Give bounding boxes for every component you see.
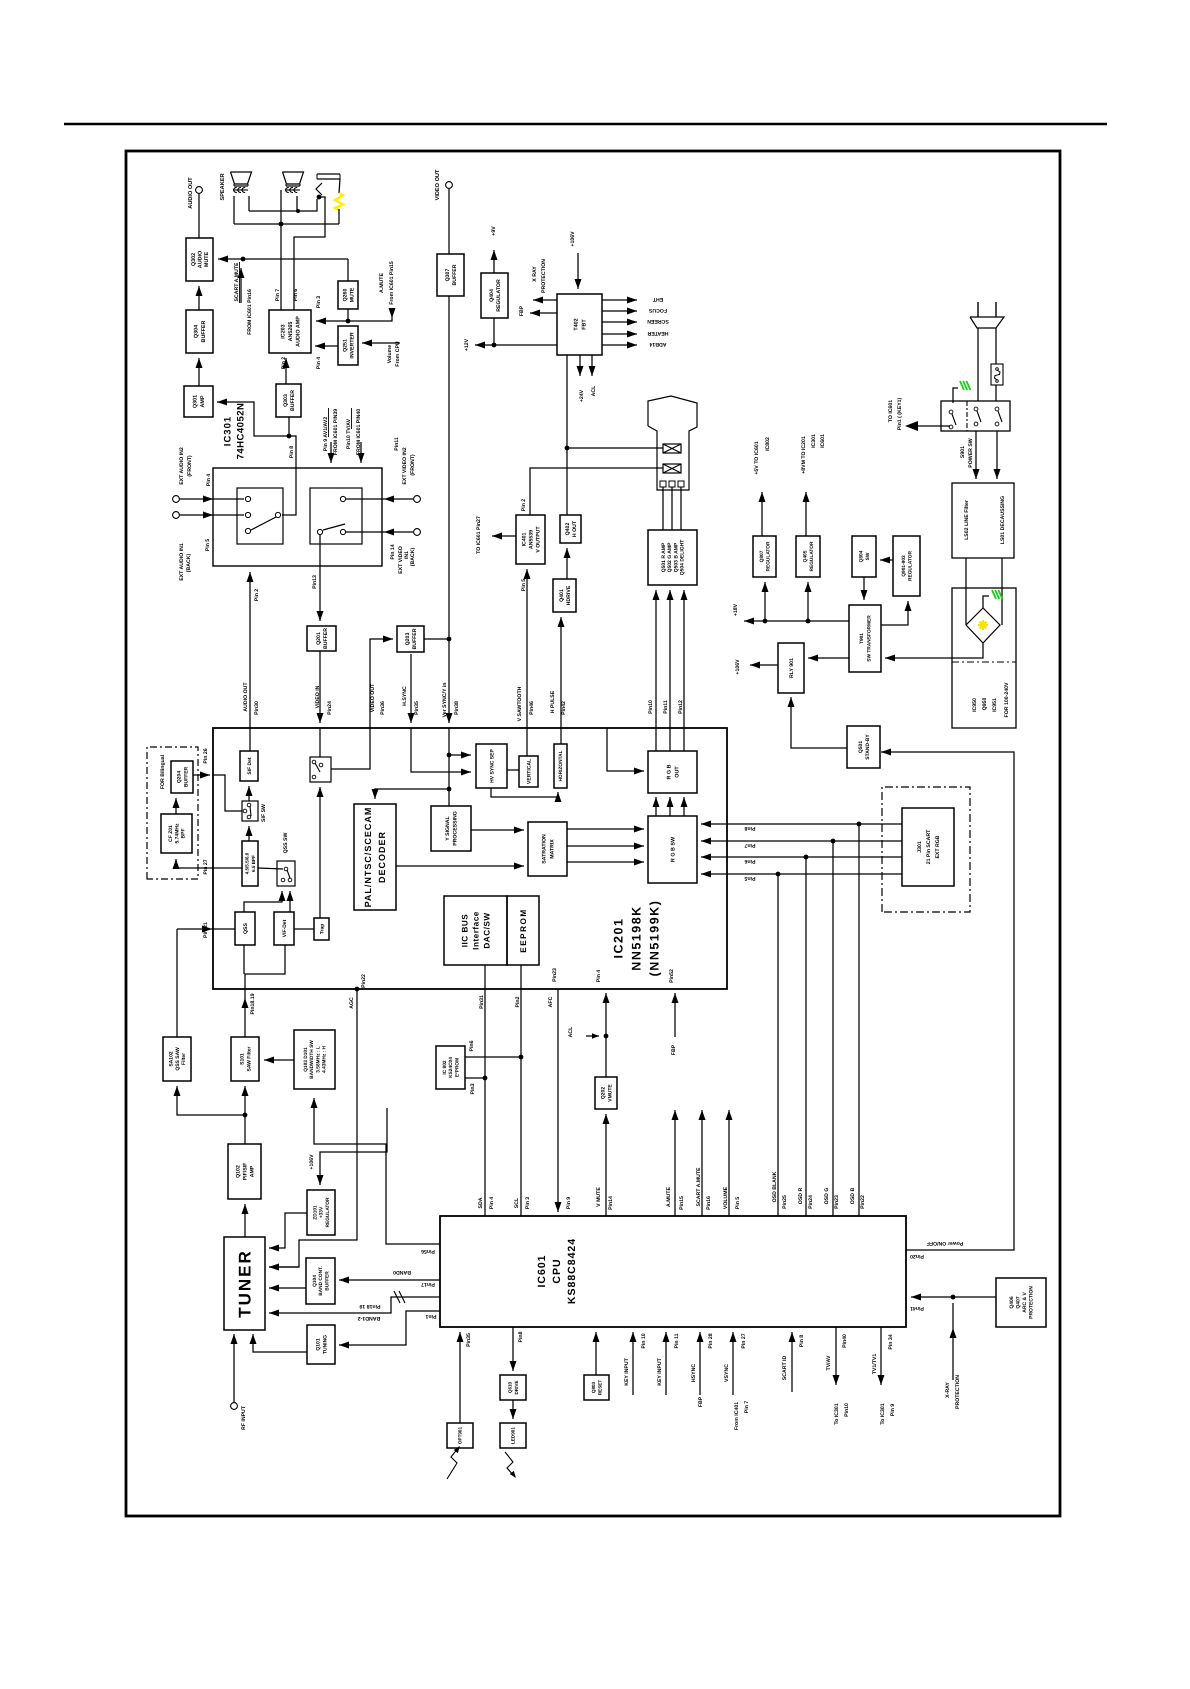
label OSD G bbox=[824, 1188, 830, 1205]
wire Q260 to IC203 Pin3 bbox=[316, 309, 350, 325]
wire Q301 to Q304 bbox=[196, 358, 203, 386]
wire FBT X-RAY bbox=[533, 297, 557, 304]
svg-text:RLY 901: RLY 901 bbox=[789, 658, 795, 678]
regulator Q901-903 REGULATOR bbox=[893, 536, 920, 596]
wire Q404 to +12V rail bbox=[493, 318, 495, 345]
wire FBT out HEATER bbox=[602, 331, 637, 338]
underline SCART A.MUTE bbox=[239, 262, 241, 303]
wire RGB out drive 684 bbox=[681, 590, 688, 751]
svg-text:EXT AUDIO IN1: EXT AUDIO IN1 bbox=[179, 543, 185, 581]
wire SDA bbox=[483, 965, 488, 1216]
label Pin6 bbox=[744, 858, 755, 864]
wire blank to RGBOUT bbox=[607, 728, 644, 775]
wire hsync internal bbox=[411, 728, 471, 776]
block VIF-Det bbox=[274, 912, 294, 945]
block SIF Det bbox=[240, 751, 258, 781]
label IC201 bbox=[612, 918, 626, 959]
label +106V rly bbox=[735, 659, 741, 675]
svg-text:IC401: IC401 bbox=[521, 532, 527, 546]
wire OSD BLANK bbox=[777, 874, 779, 1216]
svg-text:Pin25: Pin25 bbox=[782, 1195, 788, 1209]
wire OPT901 to IC601 bbox=[457, 1332, 464, 1423]
wire FBT FBP bbox=[530, 310, 557, 317]
wire Pin27 line bbox=[176, 867, 242, 869]
label Power ON/OFF bbox=[927, 1240, 964, 1246]
label Pin 14 bbox=[390, 544, 396, 559]
svg-text:BUFFER: BUFFER bbox=[412, 628, 418, 649]
svg-text:SCREEN: SCREEN bbox=[647, 318, 669, 324]
svg-text:4.5/5.5/6.0: 4.5/5.5/6.0 bbox=[245, 852, 250, 874]
label Pin13 bbox=[312, 575, 318, 589]
svg-text:From CPU: From CPU bbox=[395, 341, 401, 367]
arrowhead pin21 bbox=[202, 926, 212, 933]
label V MUTE bbox=[596, 1187, 602, 1207]
svg-text:Pin14: Pin14 bbox=[608, 1196, 614, 1210]
label SPEAKER bbox=[220, 173, 226, 200]
svg-text:+33V: +33V bbox=[319, 1206, 325, 1218]
transformer T901 SW TRANSFORMER bbox=[849, 605, 881, 672]
svg-text:Power ON/OFF: Power ON/OFF bbox=[927, 1240, 964, 1246]
label Pin 7 ic401 bbox=[744, 1401, 750, 1414]
LED output squiggle bbox=[505, 1452, 516, 1478]
label Pin 27 vsync bbox=[741, 1333, 747, 1348]
svg-text:V OUTPUT: V OUTPUT bbox=[535, 526, 541, 553]
svg-text:MUTE: MUTE bbox=[204, 251, 210, 267]
arrowhead xray bbox=[950, 1328, 957, 1338]
wire RGBSW to RGBOUT 684 bbox=[681, 797, 688, 816]
label Pin 7 bbox=[275, 289, 281, 302]
wire CF to Q204 bbox=[173, 798, 180, 814]
svg-text:Pin23: Pin23 bbox=[834, 1195, 840, 1209]
terminal EXT AUDIO IN1 bbox=[173, 512, 180, 519]
label EHT bbox=[652, 296, 663, 302]
svg-text:V SAWTOOTH: V SAWTOOTH bbox=[517, 686, 523, 721]
wire protection to IC601 Pin41 bbox=[911, 1294, 996, 1301]
switch contact S901 L bbox=[974, 407, 981, 426]
dashed area SCART bbox=[882, 787, 970, 912]
svg-text:Pin8: Pin8 bbox=[518, 1331, 524, 1342]
AC plug bbox=[970, 302, 1004, 328]
svg-text:BUFFER: BUFFER bbox=[323, 628, 329, 649]
label FROM IC601 Pin16 bbox=[247, 289, 253, 335]
svg-text:AUDIO OUT: AUDIO OUT bbox=[243, 682, 249, 712]
transistor Q202 VMUTE bbox=[595, 1077, 617, 1109]
svg-text:Pin35: Pin35 bbox=[414, 701, 420, 715]
svg-text:Q101: Q101 bbox=[315, 1338, 321, 1350]
svg-text:Q402: Q402 bbox=[565, 523, 571, 536]
wire FBT out SCREEN bbox=[602, 319, 637, 326]
svg-text:Q804: Q804 bbox=[859, 550, 865, 562]
label +106V FBT bbox=[570, 231, 576, 247]
svg-text:Trap: Trap bbox=[319, 924, 325, 935]
label FOCUS bbox=[648, 307, 667, 313]
wire decoder to matrix bbox=[396, 863, 524, 870]
svg-text:Q504 DELIGHT: Q504 DELIGHT bbox=[680, 540, 686, 576]
label Pin25 bbox=[782, 1195, 788, 1209]
wire AV switch ctrl 1 bbox=[328, 442, 335, 463]
dashed area FOR Bilingual bbox=[147, 747, 198, 879]
svg-text:HEATER: HEATER bbox=[647, 330, 668, 336]
wire RLY +106V bbox=[750, 662, 778, 669]
label Pin40 bbox=[842, 1334, 848, 1348]
deflection yoke H coil bbox=[663, 444, 681, 453]
svg-text:PROTECTION: PROTECTION bbox=[955, 1375, 961, 1409]
svg-text:+18V: +18V bbox=[733, 603, 739, 616]
svg-text:PROTECTION: PROTECTION bbox=[541, 259, 547, 293]
svg-text:SCART A.MUTE: SCART A.MUTE bbox=[234, 262, 240, 302]
wire TV1/TV2 out bbox=[878, 1327, 885, 1385]
wire Pin56 to Q103 bbox=[311, 1098, 441, 1244]
wire Q104 to TUNER bbox=[269, 1285, 306, 1292]
svg-text:PAL/NTSC/SCECAM: PAL/NTSC/SCECAM bbox=[363, 807, 373, 908]
led LED901 bbox=[500, 1423, 526, 1448]
label Pin5 bbox=[744, 875, 755, 881]
wire AGC line bbox=[269, 987, 359, 1271]
label Pin 6 bbox=[293, 289, 299, 302]
svg-text:FOCUS: FOCUS bbox=[648, 307, 667, 313]
wire Pin1 to Q101 bbox=[339, 1311, 440, 1349]
svg-text:+106V: +106V bbox=[309, 1154, 315, 1170]
wire Q203 to video out node bbox=[424, 638, 449, 640]
wire Q301 input from IC301 area bbox=[217, 399, 291, 439]
svg-text:LS01 DECAUSSING: LS01 DECAUSSING bbox=[1000, 496, 1006, 544]
regulator Q807 REGULATOR bbox=[753, 536, 776, 577]
svg-text:74HC4052N: 74HC4052N bbox=[235, 403, 246, 460]
svg-text:OPT901: OPT901 bbox=[458, 1427, 463, 1445]
wire SCL bbox=[519, 965, 524, 1216]
junction speaker bus upper bbox=[296, 209, 300, 213]
svg-text:REGULATOR: REGULATOR bbox=[496, 279, 502, 312]
label Pin15 bbox=[679, 1196, 685, 1210]
filter L902 LINE Filter / L901 DEGAUSSING bbox=[952, 483, 1014, 558]
wire HV to VERTICAL bbox=[507, 769, 519, 771]
wire Q804 to T901 bbox=[861, 577, 868, 600]
label OSD B bbox=[850, 1188, 856, 1205]
wire Q101 to TUNER bbox=[250, 1334, 308, 1352]
wire IC802 Pin6 bbox=[465, 1056, 521, 1058]
svg-text:Pin 10: Pin 10 bbox=[641, 1333, 647, 1348]
svg-text:Pin38: Pin38 bbox=[454, 701, 460, 715]
wire FBT out FOCUS bbox=[602, 308, 637, 315]
ic Q404 REGULATOR bbox=[481, 273, 508, 318]
label Pin22 bbox=[361, 974, 367, 988]
svg-text:OUT: OUT bbox=[674, 766, 680, 778]
svg-text:(FRONT): (FRONT) bbox=[410, 454, 416, 476]
svg-text:Ver SYNC/Y in: Ver SYNC/Y in bbox=[442, 683, 448, 718]
svg-text:Pin41: Pin41 bbox=[910, 1305, 924, 1311]
svg-text:R G B SW: R G B SW bbox=[670, 836, 676, 862]
wire key line bbox=[917, 425, 950, 427]
label Pin23 bbox=[552, 968, 558, 982]
label SDA bbox=[478, 1197, 484, 1208]
switch video in SW bbox=[310, 757, 331, 782]
label Pin 4 IC203 bbox=[316, 357, 322, 370]
svg-text:ARC & V: ARC & V bbox=[1022, 1292, 1028, 1313]
svg-text:Pin 2: Pin 2 bbox=[521, 499, 527, 512]
svg-text:(NN5199K): (NN5199K) bbox=[648, 900, 662, 977]
svg-text:J301: J301 bbox=[917, 841, 923, 853]
svg-text:Pin8: Pin8 bbox=[744, 825, 755, 831]
svg-text:Pin 8: Pin 8 bbox=[799, 1335, 805, 1348]
svg-text:Pin 5: Pin 5 bbox=[521, 579, 527, 592]
transistor Q260 MUTE bbox=[338, 281, 358, 309]
label HSYNC bbox=[691, 1364, 697, 1382]
wire QSS bottom bbox=[243, 945, 245, 974]
wire TV/AV out bbox=[833, 1327, 840, 1385]
svg-text:EXT AUDIO IN2: EXT AUDIO IN2 bbox=[179, 447, 185, 485]
wire T901 to Q901-903 bbox=[881, 601, 912, 625]
label Pin8 q610 bbox=[518, 1331, 524, 1342]
svg-text:ZD101: ZD101 bbox=[312, 1205, 318, 1220]
label Pin12 bbox=[678, 700, 684, 714]
svg-text:VMUTE: VMUTE bbox=[607, 1084, 613, 1102]
label EXT VIDEO IN2 bbox=[402, 447, 408, 484]
svg-text:AGC: AGC bbox=[349, 997, 355, 1009]
svg-text:Q404: Q404 bbox=[489, 289, 495, 302]
label ACL bbox=[568, 1026, 574, 1037]
svg-text:Pin 34: Pin 34 bbox=[888, 1334, 894, 1349]
wire +5V out bbox=[759, 492, 766, 536]
underline AV1/AV2 bbox=[328, 408, 330, 437]
label Pin11 bbox=[663, 700, 669, 714]
svg-text:VIDEO IN: VIDEO IN bbox=[315, 685, 321, 708]
svg-text:Pin 9: Pin 9 bbox=[890, 1404, 896, 1417]
svg-text:Pin17: Pin17 bbox=[421, 1281, 435, 1287]
svg-text:Pin10: Pin10 bbox=[648, 700, 654, 714]
wire Y to matrix bbox=[471, 827, 524, 834]
svg-text:+9V: +9V bbox=[491, 226, 497, 236]
ground chassis green S901 bbox=[953, 381, 970, 403]
label X RAY bbox=[532, 266, 538, 282]
svg-text:Pin10: Pin10 bbox=[844, 1403, 850, 1417]
svg-text:Q203: Q203 bbox=[405, 633, 411, 646]
switch contacts A bbox=[245, 496, 280, 533]
svg-text:AUDIO AMP: AUDIO AMP bbox=[295, 316, 301, 347]
wire FBT ACL bbox=[589, 355, 596, 376]
svg-text:Pin 28: Pin 28 bbox=[708, 1333, 714, 1348]
label TV/AV bbox=[826, 1355, 832, 1370]
svg-text:Pin 2: Pin 2 bbox=[254, 589, 260, 602]
wire +8VM out bbox=[803, 492, 810, 536]
wire Q304 to Q302 bbox=[196, 286, 203, 310]
svg-text:IC601: IC601 bbox=[536, 1254, 548, 1287]
transistor Q501 STAND-BY bbox=[847, 726, 880, 768]
label 74HC4052N bbox=[235, 403, 246, 460]
label FROM IC601 PIN39 bbox=[333, 409, 339, 456]
svg-text:Pin7: Pin7 bbox=[744, 842, 755, 848]
svg-text:(BACK): (BACK) bbox=[410, 548, 416, 567]
label Pin 9 b bbox=[890, 1404, 896, 1417]
block Y SIGNAL PROCESSING bbox=[431, 806, 471, 851]
svg-text:HV SYNC SEP: HV SYNC SEP bbox=[489, 749, 495, 783]
svg-text:Pin20: Pin20 bbox=[910, 1253, 924, 1259]
svg-text:Pin15: Pin15 bbox=[679, 1196, 685, 1210]
label Pin16 bbox=[706, 1196, 712, 1210]
wire fuse to switch bbox=[995, 385, 997, 401]
transistor block Q501-Q504 RGB amps bbox=[648, 530, 697, 585]
svg-text:TO IC601 Pin27: TO IC601 Pin27 bbox=[476, 516, 482, 554]
label FOR Bilingual bbox=[160, 754, 166, 789]
wire KEY INPUT 2 bbox=[663, 1332, 670, 1395]
label IC301 bbox=[222, 416, 233, 446]
svg-text:A.MUTE: A.MUTE bbox=[379, 273, 385, 293]
svg-text:IC301: IC301 bbox=[811, 434, 817, 448]
block IIC BUS Interface DAC/SW bbox=[444, 896, 507, 965]
wire TUNER to Q102 bbox=[242, 1204, 249, 1237]
svg-text:REGULATOR: REGULATOR bbox=[907, 550, 913, 580]
wire RGB out drive 670 bbox=[667, 590, 674, 751]
wire speaker bus lower bbox=[234, 223, 339, 225]
wire +106V to FBT bbox=[575, 253, 582, 289]
svg-text:AMP: AMP bbox=[200, 395, 206, 407]
svg-text:Pin 6: Pin 6 bbox=[293, 289, 299, 302]
wire video out upper bbox=[448, 189, 450, 254]
wire Q401 to Q402 bbox=[564, 548, 571, 579]
label Pin56 bbox=[421, 1248, 435, 1254]
label Pin17 bbox=[421, 1281, 435, 1287]
svg-text:Pin22: Pin22 bbox=[860, 1195, 866, 1209]
svg-text:Q407: Q407 bbox=[1016, 1296, 1022, 1308]
svg-text:+106V: +106V bbox=[735, 659, 741, 675]
svg-text:PROTECTION: PROTECTION bbox=[1029, 1286, 1035, 1319]
svg-text:E²PROM: E²PROM bbox=[454, 1058, 460, 1077]
wire OSD G bbox=[832, 841, 834, 1216]
svg-text:DAC/SW: DAC/SW bbox=[483, 912, 492, 948]
switch contact S901 key bbox=[949, 410, 956, 429]
label Pin10 b bbox=[844, 1403, 850, 1417]
block VERTICAL bbox=[519, 756, 538, 787]
label RF INPUT bbox=[241, 1405, 247, 1430]
connector J301 21 Pin SCART EXT RGB bbox=[902, 808, 954, 886]
wire QSS to QSSSW bbox=[244, 891, 286, 912]
label CPU bbox=[551, 1258, 563, 1283]
wire S901 to LS01 bbox=[994, 431, 1001, 479]
svg-text:BUFFER: BUFFER bbox=[201, 320, 207, 342]
label VOLUME bbox=[723, 1186, 729, 1209]
op-amp IC203 AN5265 AUDIO AMP bbox=[269, 310, 311, 353]
svg-text:SW TRANSFORMER: SW TRANSFORMER bbox=[867, 615, 873, 662]
svg-text:Pin3: Pin3 bbox=[470, 1083, 476, 1094]
svg-text:NN5198K: NN5198K bbox=[630, 905, 644, 970]
wire plug lead 2 bbox=[995, 328, 997, 364]
label IC951 bbox=[992, 698, 998, 712]
svg-text:Pin 4: Pin 4 bbox=[489, 1197, 495, 1210]
svg-text:+12V: +12V bbox=[464, 338, 470, 351]
svg-text:SIF Det: SIF Det bbox=[247, 757, 253, 775]
svg-text:T901: T901 bbox=[859, 633, 865, 644]
svg-text:VIDEO OUT: VIDEO OUT bbox=[370, 683, 376, 712]
svg-text:Q103 D101: Q103 D101 bbox=[303, 1047, 309, 1072]
svg-text:IC802: IC802 bbox=[765, 437, 771, 451]
wire OSD R bbox=[805, 857, 807, 1216]
wire Q204 out Pin26 bbox=[193, 772, 210, 779]
svg-text:VIF-Det: VIF-Det bbox=[282, 919, 288, 937]
svg-text:Pin12: Pin12 bbox=[678, 700, 684, 714]
label PROTECTION xray bbox=[955, 1375, 961, 1409]
transistor Q304 BUFFER bbox=[186, 310, 213, 353]
svg-text:Pin 8: Pin 8 bbox=[289, 446, 295, 459]
label Pin1 bbox=[425, 1313, 436, 1319]
label IC802 bbox=[765, 437, 771, 451]
wire IC301 Pin8 path bbox=[282, 436, 296, 515]
wire IC301 Pin2 audio out bbox=[247, 572, 254, 751]
svg-text:Pin18 19: Pin18 19 bbox=[359, 1303, 380, 1309]
svg-text:BANDWIDTH SW: BANDWIDTH SW bbox=[309, 1040, 315, 1079]
terminal AUDIO OUT bbox=[196, 187, 203, 238]
label Pin24 bbox=[327, 701, 333, 715]
wire OSD B bbox=[858, 824, 860, 1216]
svg-text:LS02 LINE Filter: LS02 LINE Filter bbox=[964, 500, 970, 540]
wire LS01 to bridge bbox=[1001, 558, 1003, 625]
terminal EXT VIDEO IN2 bbox=[414, 496, 421, 503]
block QSS bbox=[235, 912, 255, 945]
label +12V bbox=[464, 338, 470, 351]
wire VIFDet to Trap bbox=[294, 928, 314, 930]
svg-text:Pin40: Pin40 bbox=[842, 1334, 848, 1348]
svg-text:IC201: IC201 bbox=[612, 918, 626, 959]
wire SCART A.MUTE Pin16 bbox=[699, 1110, 706, 1216]
svg-text:6.5 BPF: 6.5 BPF bbox=[251, 855, 256, 872]
svg-text:DECODER: DECODER bbox=[377, 831, 387, 883]
wire scart line Pin5 bbox=[701, 871, 902, 878]
svg-text:FBP: FBP bbox=[698, 1396, 704, 1407]
wire VIFDet to QSSSW bbox=[287, 891, 294, 912]
svg-text:+106V: +106V bbox=[570, 231, 576, 247]
svg-text:Pin52: Pin52 bbox=[669, 969, 675, 983]
label Pin 2 IC401 bbox=[521, 499, 527, 512]
label Pin46 bbox=[529, 701, 535, 715]
label AGC bbox=[349, 997, 355, 1009]
svg-text:DRIVE: DRIVE bbox=[514, 1380, 519, 1394]
label SCART A.MUTE bbox=[234, 262, 240, 302]
label IC950 bbox=[972, 698, 978, 712]
wire RGBSW to RGBOUT 656 bbox=[653, 797, 660, 816]
label Pin 27 bbox=[203, 859, 209, 874]
label (FRONT) video bbox=[410, 454, 416, 476]
svg-text:Pin18.19: Pin18.19 bbox=[250, 993, 256, 1014]
svg-text:SATRATION: SATRATION bbox=[541, 834, 547, 864]
wire AGC arrow into tuner 2 bbox=[269, 1264, 299, 1271]
svg-text:Pin 14: Pin 14 bbox=[390, 544, 396, 559]
label To IC301 a bbox=[834, 1403, 840, 1424]
svg-text:AMP: AMP bbox=[249, 1165, 255, 1177]
label X-RAY bbox=[945, 1382, 951, 1398]
wire BAND1-2 line bbox=[269, 1297, 440, 1317]
transistor Q204 BUFFER bbox=[171, 761, 193, 793]
svg-text:Pin35: Pin35 bbox=[466, 1333, 472, 1347]
block PAL/NTSC/SCECAM DECODER bbox=[354, 804, 396, 910]
label IC601 bbox=[536, 1254, 548, 1287]
transistor Q402 H OUT bbox=[560, 515, 581, 543]
label VIDEO OUT terminal bbox=[435, 169, 441, 200]
ground chassis green bridge bbox=[983, 590, 1002, 608]
terminal EXT AUDIO IN2 bbox=[173, 496, 180, 503]
svg-text:Pin6: Pin6 bbox=[469, 1040, 475, 1051]
wire rail to Q405 bbox=[805, 582, 812, 621]
svg-text:Q304: Q304 bbox=[194, 325, 200, 338]
svg-text:SA102: SA102 bbox=[168, 1051, 174, 1067]
wire video out long bbox=[446, 296, 453, 723]
wire matrix to RGBSW 846 bbox=[567, 843, 644, 850]
wire VSYNC bbox=[730, 1332, 737, 1395]
label SCREEN bbox=[647, 318, 669, 324]
wire Q901-903 to Q804 bbox=[880, 557, 893, 564]
block HORIZONTAL bbox=[554, 744, 567, 788]
svg-text:Q803: Q803 bbox=[591, 1381, 596, 1393]
svg-text:X RAY: X RAY bbox=[532, 266, 538, 282]
wire matrix to RGBSW 829 bbox=[567, 826, 644, 833]
wire Trap to videoSW bbox=[317, 787, 324, 918]
